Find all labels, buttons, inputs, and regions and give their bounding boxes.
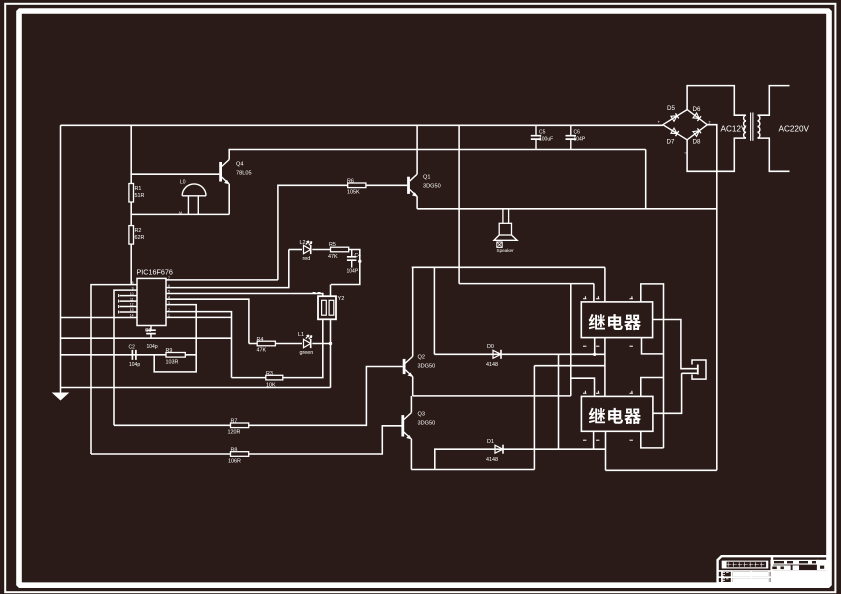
wire R8 line left xyxy=(91,453,231,455)
svg-text:3DG50: 3DG50 xyxy=(423,184,441,190)
wire loop under R9 xyxy=(154,355,196,372)
wire bridge AC bottom to transformer xyxy=(687,138,746,171)
wire relay2 pin5 bottom xyxy=(641,431,664,448)
wire to Q4 base xyxy=(131,125,219,174)
wire ground line y387 xyxy=(61,387,331,389)
svg-text:D0: D0 xyxy=(487,344,494,350)
svg-text:D6: D6 xyxy=(693,106,701,113)
wire PIC pin14 to ground rail xyxy=(61,317,138,319)
wire PIC pin8 to R8 line xyxy=(91,285,137,454)
wire relay1 pin2 top xyxy=(593,284,595,302)
wire PIC pin6 to LED L2 line xyxy=(166,250,289,288)
wire PIC pin7 to R6 xyxy=(278,185,348,280)
crystal Y2 xyxy=(318,296,336,319)
svg-text:Q1: Q1 xyxy=(423,175,430,181)
bridge diode xyxy=(671,128,677,134)
wire vertical x558 xyxy=(558,354,560,449)
bridge diode xyxy=(693,113,699,119)
svg-text:104p: 104p xyxy=(147,344,158,350)
wire relay2 pin2 bottom xyxy=(593,431,595,449)
svg-text:106R: 106R xyxy=(228,459,241,465)
wire bridge AC top to transformer xyxy=(687,86,746,116)
wire Q3 emitter line right xyxy=(411,469,534,471)
svg-text:D1: D1 xyxy=(487,439,494,445)
wire xyxy=(289,249,302,251)
wire bridge + output long right vertical xyxy=(707,125,717,471)
svg-text:R7: R7 xyxy=(231,419,238,425)
capacitor C1 xyxy=(146,326,156,339)
wire node line y283 xyxy=(459,283,594,285)
wire Q1 emitter down xyxy=(416,196,418,208)
svg-text:D5: D5 xyxy=(667,105,675,112)
svg-text:R1: R1 xyxy=(135,186,142,192)
svg-text:3DG50: 3DG50 xyxy=(418,421,436,427)
wire xyxy=(130,174,132,183)
svg-text:120R: 120R xyxy=(228,430,241,436)
resistor R3 xyxy=(266,375,283,380)
wire node line y267 xyxy=(412,266,605,268)
wire vertical x571 xyxy=(570,284,572,396)
svg-text:R5: R5 xyxy=(329,242,336,248)
svg-text:C5: C5 xyxy=(539,130,546,136)
wire ground bus y338 xyxy=(61,337,232,339)
wire lamp bottom line xyxy=(131,213,229,215)
resistor R1 xyxy=(129,184,134,203)
wire R1 to R2 xyxy=(130,202,132,226)
capacitor C6 xyxy=(566,125,577,149)
IC U1 PIC16F676 xyxy=(137,278,166,325)
svg-text:104P: 104P xyxy=(347,269,359,275)
svg-text:C4: C4 xyxy=(355,253,362,259)
svg-text:104p: 104p xyxy=(129,362,140,368)
wire D1 line xyxy=(435,449,606,469)
wire Q3 collector up xyxy=(410,396,412,413)
wire PIC pin1 join xyxy=(166,316,232,318)
svg-text:AC12V: AC12V xyxy=(721,125,747,134)
svg-text:D8: D8 xyxy=(693,139,701,146)
wire +12V top rail xyxy=(61,124,663,126)
svg-text:Q3: Q3 xyxy=(418,412,425,418)
transistor Q3 xyxy=(403,413,412,439)
wire relay1 pin2 bottom stub xyxy=(594,338,596,355)
wire ground bus y355 xyxy=(61,354,197,356)
wire R5 right to crystal top xyxy=(331,250,360,285)
svg-text:R3: R3 xyxy=(266,371,273,377)
svg-text:C2: C2 xyxy=(129,345,136,351)
lamp L0 xyxy=(182,184,206,214)
wire left ground vertical xyxy=(60,125,62,391)
wire PIC pin7 out xyxy=(166,279,278,281)
svg-text:Speaker: Speaker xyxy=(497,248,515,253)
junction xyxy=(593,353,596,356)
wire relay1 common to connector xyxy=(653,320,698,369)
svg-text:L2: L2 xyxy=(300,240,306,246)
svg-text:R9: R9 xyxy=(166,348,173,354)
svg-text:R4: R4 xyxy=(257,337,264,343)
connector J1 xyxy=(692,360,706,379)
wire xyxy=(312,249,330,251)
transistor Q1 xyxy=(409,174,418,196)
wire Q4 emitter down xyxy=(228,184,230,214)
bridge diode xyxy=(693,131,699,137)
wire relay1 pin5 bottom xyxy=(642,338,664,354)
wire relay2 pin3 bottom xyxy=(605,431,607,470)
svg-text:Q4: Q4 xyxy=(236,162,243,168)
wire speaker line xyxy=(417,208,717,210)
wire Q2 emitter line right xyxy=(413,395,571,397)
wire D0 line xyxy=(434,353,605,355)
wire connector lower pin xyxy=(682,372,698,374)
relay K1 xyxy=(581,302,652,338)
resistor R9 xyxy=(166,353,185,358)
wire R7 line left xyxy=(114,424,231,426)
svg-text:AC220V: AC220V xyxy=(779,125,810,134)
resistor R6 xyxy=(348,183,366,188)
wire relay1 pin3 top xyxy=(604,267,606,302)
diode D0 xyxy=(493,350,501,359)
svg-text:green: green xyxy=(300,350,314,356)
svg-text:Y2: Y2 xyxy=(338,296,345,302)
wire xyxy=(249,343,257,345)
wire L1 to crystal lead junction xyxy=(312,343,330,345)
wire R3 to crystal pin xyxy=(283,319,323,377)
wire PIC left pin stub xyxy=(120,300,138,302)
wire node line y366 xyxy=(534,365,605,367)
wire AC220 bottom lead xyxy=(758,138,790,171)
junction xyxy=(358,260,361,263)
wire PIC left pin stub xyxy=(120,306,138,308)
diode bridge D5 D6 D7 D8 xyxy=(663,110,707,140)
svg-text:2: 2 xyxy=(709,121,711,125)
diode D1 xyxy=(495,445,503,454)
svg-text:103R: 103R xyxy=(166,360,179,366)
svg-text:+: + xyxy=(658,120,661,125)
svg-text:62R: 62R xyxy=(135,235,145,241)
title block xyxy=(718,556,828,584)
wire Q1 collector up xyxy=(416,125,418,174)
wire Q4 collector rail xyxy=(229,150,646,160)
wire crystal bottom right lead xyxy=(330,319,332,387)
wire mid vertical from rail xyxy=(458,125,460,283)
wire PIC pin9 to R7 line xyxy=(114,290,137,425)
svg-text:R2: R2 xyxy=(135,228,142,234)
capacitor C4 xyxy=(347,250,357,268)
transistor Q2 xyxy=(404,356,413,376)
svg-text:47K: 47K xyxy=(257,348,267,354)
wire vertical x534 xyxy=(533,366,535,470)
svg-text:51R: 51R xyxy=(135,193,145,199)
svg-text:C6: C6 xyxy=(574,130,581,136)
wire to relay2 pin2 top xyxy=(571,378,595,396)
svg-text:C1: C1 xyxy=(145,328,152,334)
wire xyxy=(275,343,302,345)
wire xyxy=(232,377,266,379)
svg-text:R8: R8 xyxy=(231,448,238,454)
wire R2 down to PIC pin row xyxy=(130,244,132,285)
capacitor C5 xyxy=(531,125,541,149)
svg-text:100uF: 100uF xyxy=(539,137,553,143)
svg-text:Q2: Q2 xyxy=(418,355,425,361)
svg-text:L0: L0 xyxy=(180,180,186,186)
resistor R2 xyxy=(129,226,134,245)
wire down to D0 line xyxy=(433,267,435,354)
svg-text:10K: 10K xyxy=(266,383,276,389)
svg-text:78L05: 78L05 xyxy=(236,171,252,177)
svg-text:47K: 47K xyxy=(328,254,338,260)
wire bottom return line xyxy=(606,469,717,471)
capacitor C2 xyxy=(132,350,136,360)
relay K2 xyxy=(581,396,653,431)
wire R8 to Q3 base xyxy=(249,426,402,454)
wire R6 to Q1 base xyxy=(366,184,407,186)
resistor R5 xyxy=(331,247,349,252)
wire Q2 collector up xyxy=(412,267,414,356)
wire down to speaker line xyxy=(645,150,647,209)
svg-text:4148: 4148 xyxy=(486,457,498,463)
wire Q3 emitter down xyxy=(410,439,412,470)
wire connector to relay2 common xyxy=(653,373,682,413)
transistor Q4 xyxy=(221,160,230,185)
resistor R4 xyxy=(257,341,275,346)
svg-text:R6: R6 xyxy=(347,179,354,185)
junction xyxy=(329,342,332,345)
speaker B1 xyxy=(494,209,517,241)
led L1 xyxy=(304,335,312,348)
wire PIC left pin stub xyxy=(120,295,138,297)
wire PIC pin3 to R9 xyxy=(166,305,196,355)
svg-text:3DG50: 3DG50 xyxy=(418,364,436,370)
led L2 xyxy=(304,241,312,254)
resistor R7 xyxy=(231,423,249,428)
svg-text:red: red xyxy=(303,256,311,262)
bridge diode xyxy=(671,116,677,122)
wire relay1 pin5 top loop right xyxy=(641,284,664,448)
ground xyxy=(53,391,68,400)
wire PIC pin2 to R3 xyxy=(166,312,232,378)
wire PIC left pin stub xyxy=(120,311,138,313)
wire R7 to Q2 base xyxy=(249,367,403,426)
resistor R8 xyxy=(231,452,249,457)
wire AC220 top lead xyxy=(758,86,790,116)
svg-text:L1: L1 xyxy=(298,332,304,338)
wire crystal top right lead xyxy=(330,285,332,297)
transformer T1 xyxy=(744,113,760,141)
wire relay2 pin5 top xyxy=(641,378,664,397)
wire relay1 pin3 to relay2 pin3 xyxy=(604,338,606,397)
wire PIC pin4 to R4 xyxy=(166,299,249,343)
wire Q2 emitter down xyxy=(412,377,414,396)
svg-text:104P: 104P xyxy=(574,137,586,143)
svg-text:D7: D7 xyxy=(667,139,675,146)
svg-text:4148: 4148 xyxy=(486,362,498,368)
svg-text:105K: 105K xyxy=(347,190,360,196)
wire PIC pin5 to crystal xyxy=(166,294,323,297)
svg-text:M: M xyxy=(179,211,182,215)
